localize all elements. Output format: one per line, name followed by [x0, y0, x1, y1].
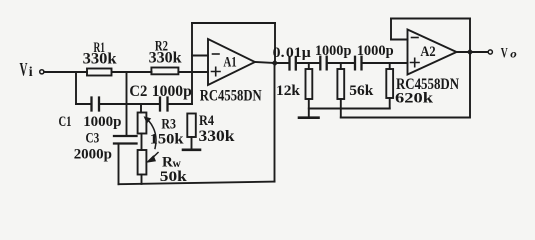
wire A2 inverting input [391, 39, 408, 41]
wire bottom bootstrap rail [119, 182, 275, 185]
wire 12k to ground [308, 99, 310, 118]
svg-text:A1: A1 [223, 54, 236, 70]
label A1 plus [212, 67, 221, 75]
op-amp A1 [208, 39, 255, 85]
arrow Rw wiper [152, 153, 159, 159]
resistor R4 330k [187, 114, 196, 138]
svg-text:1000p: 1000p [152, 83, 192, 100]
wire feedback rail2 to A2 output [341, 52, 470, 118]
svg-text:0. 01μ: 0. 01μ [273, 45, 312, 61]
wire A2 feedback right down [469, 19, 471, 53]
node Vi input terminal [40, 70, 44, 74]
wire A1 output [255, 62, 275, 63]
wire A2 feedback top [391, 18, 470, 20]
capacitor C3 2000p [114, 136, 137, 144]
wire Vi to R1 [44, 71, 87, 73]
wire C1 to C2 [100, 103, 160, 105]
svg-text:1000p: 1000p [357, 43, 394, 59]
svg-text:V: V [501, 46, 508, 62]
label A2 minus [412, 37, 419, 39]
node junction R1-R2 midpoint [126, 72, 128, 104]
ground R4 [183, 149, 200, 152]
svg-text:RC4558DN: RC4558DN [396, 76, 459, 93]
resistor R3 150k [138, 113, 147, 134]
wire row B stub to R3 [140, 104, 142, 113]
capacitor C1 1000p [92, 98, 100, 111]
wire row B lower tee [76, 103, 91, 105]
wire Vi node down to row B [75, 72, 77, 104]
wire A1 feedback right down [274, 23, 276, 63]
wire C4 to C5 [297, 62, 320, 64]
svg-text:C3: C3 [86, 131, 100, 147]
svg-text:330k: 330k [83, 51, 117, 68]
wire 620k to rail1 [389, 98, 391, 109]
node A2 output junction [467, 49, 474, 56]
wire R1 to R2 [112, 71, 152, 73]
wire A1 feedback vertical [191, 23, 193, 104]
svg-text:330k: 330k [199, 128, 235, 145]
svg-text:V: V [20, 60, 28, 81]
resistor 620k [386, 69, 393, 98]
potentiometer Rw 50k [138, 150, 147, 175]
wire C2 to inverting node [168, 103, 192, 105]
svg-text:R4: R4 [199, 113, 214, 129]
svg-text:2000p: 2000p [74, 147, 112, 163]
wire A1 feedback top [192, 22, 275, 24]
svg-text:R3: R3 [161, 117, 176, 133]
svg-text:56k: 56k [349, 83, 374, 99]
ground 12k [299, 116, 319, 119]
wire C6 to A2 plus input [362, 62, 407, 64]
svg-text:1000p: 1000p [315, 43, 352, 59]
svg-text:C1: C1 [59, 114, 72, 130]
wire A1 inverting input [192, 55, 208, 57]
svg-text:12k: 12k [276, 83, 301, 99]
svg-text:1000p: 1000p [83, 114, 121, 130]
op-amp A2 [408, 30, 457, 75]
capacitor C2 1000p [160, 98, 168, 111]
label A1 minus [213, 53, 220, 55]
svg-text:150k: 150k [150, 132, 185, 148]
capacitor C5 1000p [320, 57, 326, 70]
wire C5 to C6 [327, 62, 354, 64]
capacitor C6 1000p [355, 57, 362, 70]
wire bootstrap rail up to A1 output [274, 63, 276, 182]
wire R2 to A1 plus input [178, 71, 208, 73]
wire R4 to ground [191, 137, 193, 149]
svg-text:o: o [510, 49, 517, 61]
svg-text:330k: 330k [149, 50, 182, 67]
resistor R1 330k [87, 69, 112, 76]
wire R3 to Rw [141, 134, 143, 151]
wire 56k down through rail1 [340, 99, 342, 118]
wire Rw to bottom rail [141, 175, 143, 184]
node Vo output terminal [488, 50, 492, 54]
wire 56k stub [340, 63, 342, 69]
arrow R3 adjust [149, 121, 157, 149]
resistor 12k [306, 69, 313, 99]
resistor R2 330k [151, 68, 178, 75]
wire A2 feedback vertical left [390, 19, 392, 40]
wire A2 output [457, 51, 488, 53]
node A1 output junction [272, 60, 279, 67]
wire 620k stub [389, 63, 391, 69]
wire ground rail1 [309, 108, 390, 110]
wire C3 to bottom rail [118, 144, 120, 185]
svg-text:A2: A2 [420, 44, 435, 60]
svg-text:RC4558DN: RC4558DN [200, 88, 262, 105]
resistor 56k [337, 69, 344, 99]
capacitor C4 0.01u [290, 57, 296, 70]
svg-text:C2: C2 [129, 83, 147, 100]
wire 12k stub [308, 63, 310, 69]
label A2 plus [411, 58, 420, 66]
svg-text:i: i [29, 65, 33, 80]
wire A1 output to C4 [275, 62, 289, 64]
wire C3 branch vertical [126, 104, 128, 136]
